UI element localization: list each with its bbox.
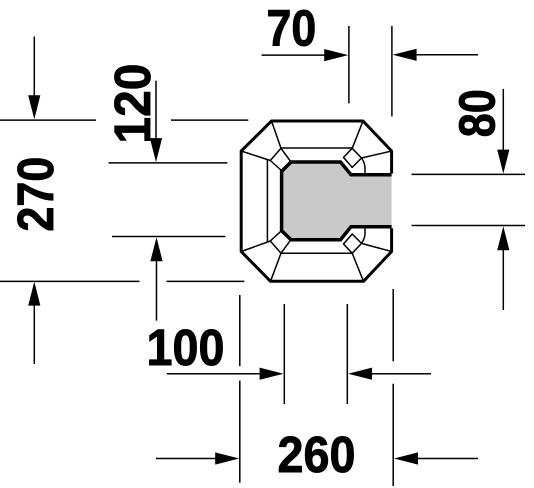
- svg-text:270: 270: [7, 157, 64, 232]
- inner octagon left edge: [266, 160, 268, 242]
- dim line C bottom-left (y=281.4): [0, 280, 244, 282]
- svg-text:120: 120: [104, 64, 161, 144]
- dim 70 arrow from right (left-pointing): [412, 54, 478, 56]
- dim line B (y=163): [109, 162, 228, 164]
- dim line mid-left (y=236.5): [112, 236, 225, 238]
- outer octagon body: [241, 121, 391, 281]
- dim ext line E (x=284.3): [283, 304, 285, 404]
- dim 80 line H (y=174.4): [412, 173, 526, 175]
- fan line TR upper: [352, 121, 363, 148]
- dim arrow 120 (down): [155, 81, 157, 143]
- dim 260 arrow right: [156, 458, 220, 460]
- basin gray fill: [282, 162, 392, 240]
- fan line BR lower: [352, 253, 363, 281]
- corner diamond TR: [344, 148, 362, 167]
- svg-text:100: 100: [147, 319, 225, 376]
- dim line A top-left (y=120): [0, 119, 248, 121]
- fan line BR upper: [362, 243, 392, 251]
- fan line BL upper: [241, 241, 270, 252]
- dim 80 line I (y=225.5): [412, 225, 526, 227]
- dim 70 ext line right (x=391.9): [391, 26, 393, 117]
- inner octagon bottom edge: [281, 252, 352, 254]
- corner diamond TL: [270, 148, 290, 170]
- svg-text:260: 260: [278, 426, 356, 483]
- dim 100 arrow right: [167, 373, 265, 375]
- inner right stub bottom: [362, 227, 366, 244]
- fan line TL upper: [272, 121, 282, 148]
- dim 70 ext line left (x=348.9): [348, 26, 350, 104]
- dim 80 arrow top (down): [502, 89, 504, 155]
- dim ext line D (x=239.8): [239, 295, 241, 483]
- dim 70 arrow right: [262, 54, 329, 56]
- basin rim thick outline: [282, 162, 392, 240]
- dim ext line F (x=347.3): [346, 304, 348, 404]
- dim 260 arrow from right (left-pointing): [412, 458, 478, 460]
- dim arrow 270 bottom (up): [33, 301, 35, 364]
- svg-text:70: 70: [267, 0, 317, 57]
- dim 100 arrow from right (left-pointing): [366, 373, 431, 375]
- svg-text:80: 80: [448, 89, 505, 137]
- dim arrow 270 top (down): [33, 37, 35, 101]
- corner diamond BR: [344, 234, 362, 253]
- fan line BL lower: [271, 253, 282, 281]
- dim ext line G (x=393.2): [392, 289, 394, 486]
- inner right stub top: [362, 158, 366, 175]
- fan line TR lower: [362, 151, 392, 158]
- inner octagon top edge: [281, 147, 352, 149]
- dim 80 arrow bottom (up): [502, 245, 504, 310]
- fan line TL lower: [241, 151, 270, 161]
- corner diamond BL: [270, 231, 290, 253]
- dim arrow mid (up): [156, 256, 158, 321]
